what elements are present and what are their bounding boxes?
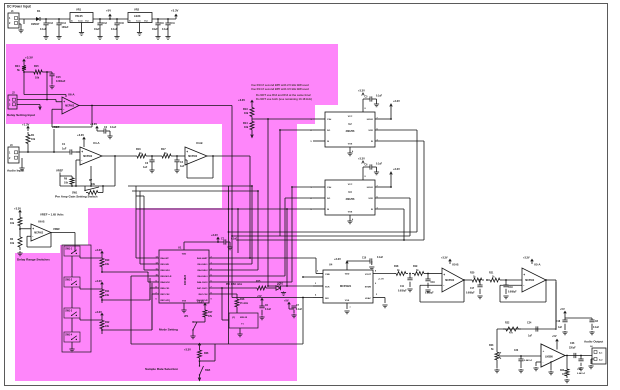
svg-text:VSS: VSS <box>345 300 350 302</box>
svg-text:U4-B: U4-B <box>196 141 203 145</box>
svg-text:CSB: CSB <box>325 274 330 276</box>
svg-text:1N5817: 1N5817 <box>31 23 40 26</box>
svg-text:10k: 10k <box>244 126 249 129</box>
svg-text:R15: R15 <box>34 65 39 68</box>
svg-text:0.1uF: 0.1uF <box>162 28 169 31</box>
svg-text:+: + <box>63 100 65 104</box>
svg-text:HOLD: HOLD <box>367 119 374 121</box>
svg-text:RA7-OSC1: RA7-OSC1 <box>197 287 208 290</box>
svg-text:+: + <box>443 273 445 277</box>
svg-text:-: - <box>63 107 64 111</box>
svg-text:RB1-SDI: RB1-SDI <box>161 264 170 266</box>
svg-text:+3.3V: +3.3V <box>211 233 218 237</box>
svg-text:C13: C13 <box>49 22 54 25</box>
svg-text:0.1uF: 0.1uF <box>377 257 384 259</box>
svg-text:MXL25: MXL25 <box>240 317 248 319</box>
svg-text:+3.3V: +3.3V <box>184 348 191 352</box>
svg-text:0.005uF: 0.005uF <box>398 291 407 293</box>
svg-text:R17: R17 <box>161 148 166 151</box>
svg-text:16F1823: 16F1823 <box>183 274 187 285</box>
svg-text:RA7-CS2: RA7-CS2 <box>199 293 209 296</box>
svg-text:C26: C26 <box>570 342 575 345</box>
svg-text:VREF = 1.65 Volts: VREF = 1.65 Volts <box>40 213 64 217</box>
svg-text:C12: C12 <box>103 22 108 25</box>
svg-text:U6-B: U6-B <box>38 220 45 224</box>
svg-text:C23: C23 <box>514 350 519 352</box>
svg-text:C18: C18 <box>556 321 561 323</box>
svg-text:MCP602: MCP602 <box>83 156 93 158</box>
svg-text:U4-A: U4-A <box>93 141 100 145</box>
svg-text:+5V: +5V <box>560 307 565 311</box>
svg-text:0.1uF: 0.1uF <box>110 126 117 129</box>
svg-text:LE33: LE33 <box>134 14 141 18</box>
svg-text:Out: Out <box>85 20 89 23</box>
svg-text:+: + <box>543 349 545 353</box>
svg-text:Delay Setting Input: Delay Setting Input <box>7 113 35 117</box>
svg-text:R10: R10 <box>105 259 110 262</box>
svg-text:VREF: VREF <box>52 125 60 129</box>
svg-text:R15: R15 <box>256 280 261 283</box>
svg-text:Sample Rate Selection: Sample Rate Selection <box>145 367 178 371</box>
svg-text:VSS: VSS <box>182 301 187 303</box>
svg-text:R22: R22 <box>505 322 510 325</box>
svg-text:+3.3V: +3.3V <box>77 133 84 137</box>
svg-text:10k: 10k <box>105 294 110 297</box>
svg-text:+: + <box>81 150 83 154</box>
svg-text:R18: R18 <box>394 265 399 268</box>
svg-text:0.1uF: 0.1uF <box>296 309 303 311</box>
svg-text:SW1-3: SW1-3 <box>65 310 73 312</box>
svg-text:1uF: 1uF <box>180 165 185 168</box>
svg-text:R24: R24 <box>15 65 20 68</box>
svg-text:SCK: SCK <box>368 198 373 200</box>
svg-text:-: - <box>443 283 444 287</box>
svg-text:+: + <box>186 150 188 154</box>
svg-text:LDAC: LDAC <box>365 297 371 300</box>
svg-text:+3.3V: +3.3V <box>90 122 97 126</box>
svg-text:10k: 10k <box>244 112 249 115</box>
svg-text:SW1-1: SW1-1 <box>65 248 73 250</box>
svg-text:RA0-UART: RA0-UART <box>197 257 208 260</box>
svg-text:+3.3V: +3.3V <box>441 257 448 260</box>
svg-text:C10: C10 <box>362 258 367 260</box>
svg-text:10uF: 10uF <box>94 28 100 31</box>
svg-text:DC Power Input: DC Power Input <box>7 5 32 9</box>
svg-text:-: - <box>523 283 524 287</box>
svg-text:+3.3V: +3.3V <box>523 257 530 260</box>
svg-text:+: + <box>523 273 525 277</box>
svg-text:VDD: VDD <box>182 254 187 256</box>
svg-text:U5-A: U5-A <box>534 263 541 267</box>
svg-text:R24: R24 <box>560 369 565 372</box>
svg-text:VSS: VSS <box>348 212 353 214</box>
svg-text:+3.3V: +3.3V <box>14 207 21 211</box>
svg-text:MCP602: MCP602 <box>188 156 198 158</box>
svg-text:-: - <box>543 360 544 364</box>
svg-text:SO: SO <box>327 198 330 200</box>
svg-text:C11: C11 <box>400 286 405 288</box>
svg-text:RA3-SEL3: RA3-SEL3 <box>197 275 208 278</box>
svg-text:MCP602: MCP602 <box>65 106 75 108</box>
svg-text:SCK: SCK <box>325 287 330 289</box>
svg-text:MCP602: MCP602 <box>525 280 535 282</box>
svg-text:R17: R17 <box>208 311 213 314</box>
svg-text:MCP4921: MCP4921 <box>340 285 352 288</box>
svg-text:+3.3V: +3.3V <box>95 279 102 283</box>
svg-text:+3.3V: +3.3V <box>95 248 102 252</box>
svg-text:LM386: LM386 <box>545 356 553 359</box>
svg-text:RA4-OSC2: RA4-OSC2 <box>197 281 208 284</box>
svg-text:RB7-GPQ: RB7-GPQ <box>161 300 171 302</box>
svg-text:15 ohm: 15 ohm <box>240 303 248 305</box>
svg-text:Do NOT use both (use remaining: Do NOT use both (use remaining 10-18 kHz… <box>256 97 312 101</box>
svg-text:C18: C18 <box>509 287 514 289</box>
svg-text:SW1-4: SW1-4 <box>65 333 73 336</box>
svg-text:0.1uF: 0.1uF <box>593 327 600 329</box>
svg-text:VCC: VCC <box>348 184 353 186</box>
svg-text:Out: Out <box>144 20 148 23</box>
svg-text:+3.3V: +3.3V <box>25 56 33 60</box>
svg-text:VR2: VR2 <box>134 8 140 12</box>
svg-text:R19: R19 <box>413 265 418 268</box>
svg-text:23K256: 23K256 <box>346 130 355 133</box>
svg-text:C17: C17 <box>470 288 475 290</box>
svg-text:SO: SO <box>327 130 330 132</box>
svg-text:RA2-SEL2: RA2-SEL2 <box>197 269 208 272</box>
svg-text:0.1uF: 0.1uF <box>111 28 118 31</box>
svg-text:0.047uF: 0.047uF <box>577 372 586 375</box>
svg-text:+5V: +5V <box>552 335 557 338</box>
svg-text:+3.3V: +3.3V <box>197 300 204 304</box>
svg-text:SCK: SCK <box>368 130 373 132</box>
svg-text:VREF: VREF <box>53 227 60 231</box>
svg-text:RB5-CS1: RB5-CS1 <box>161 288 171 290</box>
svg-text:1uF: 1uF <box>558 327 563 329</box>
svg-text:C10: C10 <box>120 22 125 25</box>
svg-text:U6-A: U6-A <box>68 93 75 97</box>
svg-text:R16: R16 <box>136 148 141 151</box>
svg-text:0.1uF: 0.1uF <box>376 164 383 166</box>
svg-text:0.1uF: 0.1uF <box>40 28 47 31</box>
svg-text:Pre Amp Gain Setting Switch: Pre Amp Gain Setting Switch <box>55 195 98 199</box>
svg-text:VR1: VR1 <box>76 8 82 12</box>
svg-text:10uF: 10uF <box>152 28 158 31</box>
svg-text:0.068uF: 0.068uF <box>508 292 517 294</box>
svg-text:VSS: VSS <box>348 144 353 146</box>
svg-text:0.1uF: 0.1uF <box>265 309 272 311</box>
svg-text:R21: R21 <box>489 272 494 275</box>
svg-text:+3.3V: +3.3V <box>334 257 341 261</box>
svg-text:RB7-CS2: RB7-CS2 <box>161 294 171 296</box>
svg-text:VREF: VREF <box>56 169 64 173</box>
svg-text:78L05: 78L05 <box>75 14 83 18</box>
svg-text:-: - <box>81 158 82 162</box>
svg-text:MCP602: MCP602 <box>34 233 44 235</box>
svg-text:C24: C24 <box>527 322 532 325</box>
svg-text:R23: R23 <box>489 344 494 347</box>
svg-text:23K256: 23K256 <box>346 198 355 201</box>
svg-text:+5V: +5V <box>106 9 111 13</box>
svg-text:+3.3V: +3.3V <box>393 99 400 103</box>
svg-text:R12: R12 <box>105 321 110 324</box>
svg-text:R11: R11 <box>105 290 110 293</box>
svg-text:Delay Range Switches: Delay Range Switches <box>17 258 50 262</box>
svg-text:MCP602: MCP602 <box>445 280 455 282</box>
svg-text:SW5: SW5 <box>205 369 211 372</box>
svg-text:R14: R14 <box>243 122 248 125</box>
svg-text:VDD: VDD <box>345 274 350 276</box>
svg-text:1uF: 1uF <box>528 336 533 338</box>
svg-text:+1.3V: +1.3V <box>22 123 30 127</box>
svg-text:10k: 10k <box>10 242 15 245</box>
svg-text:0.001uF: 0.001uF <box>56 80 66 83</box>
svg-text:SW1-2: SW1-2 <box>65 279 73 281</box>
svg-text:C14: C14 <box>62 22 67 25</box>
svg-text:RB3-MCLR: RB3-MCLR <box>161 276 172 278</box>
svg-text:VOUT: VOUT <box>365 274 372 276</box>
svg-text:10k: 10k <box>105 325 110 328</box>
svg-text:-: - <box>32 234 33 238</box>
svg-text:Use R14 if second BPF with 3.5: Use R14 if second BPF with 3.5 kHz BW us… <box>251 87 309 91</box>
svg-text:Com: Com <box>136 21 141 23</box>
svg-text:C16: C16 <box>431 282 436 284</box>
svg-text:100uF: 100uF <box>62 26 69 29</box>
svg-text:Use R13 if second BPF with 2.5: Use R13 if second BPF with 2.5 kHz BW us… <box>251 83 309 87</box>
svg-text:C15: C15 <box>56 76 61 79</box>
svg-text:0.068uF: 0.068uF <box>425 293 434 295</box>
svg-text:+3.3V: +3.3V <box>358 89 365 93</box>
svg-text:U1: U1 <box>178 246 182 250</box>
svg-text:+3.3V: +3.3V <box>171 9 179 13</box>
svg-text:R26: R26 <box>204 352 209 355</box>
svg-text:Audio Output: Audio Output <box>584 340 603 344</box>
svg-text:RA0-INT: RA0-INT <box>161 257 170 260</box>
svg-text:220uF: 220uF <box>569 348 576 350</box>
svg-text:SHDN: SHDN <box>365 287 372 289</box>
svg-text:RB4-SCK: RB4-SCK <box>161 281 171 284</box>
svg-text:Mode Setting: Mode Setting <box>159 328 178 332</box>
svg-text:VCC: VCC <box>348 116 353 118</box>
svg-text:47k: 47k <box>208 315 213 318</box>
svg-text:0.047uF: 0.047uF <box>524 359 533 362</box>
svg-text:+1.3V: +1.3V <box>378 279 384 281</box>
svg-text:10k: 10k <box>105 263 110 266</box>
svg-text:C11: C11 <box>171 22 176 25</box>
svg-text:+3.3V: +3.3V <box>95 310 102 314</box>
svg-text:RA1-SEL1: RA1-SEL1 <box>197 263 208 266</box>
svg-text:10k: 10k <box>35 77 40 80</box>
svg-text:+: + <box>32 227 34 231</box>
svg-text:1uF: 1uF <box>62 148 67 151</box>
svg-text:HOLD: HOLD <box>367 187 374 189</box>
svg-text:R16: R16 <box>240 298 245 301</box>
svg-text:Com: Com <box>78 21 83 23</box>
svg-text:D1: D1 <box>37 9 41 13</box>
svg-text:Do NOT use R13 and R14 at the: Do NOT use R13 and R14 at the same time! <box>256 93 311 97</box>
svg-text:JP1: JP1 <box>184 315 189 318</box>
svg-text:U4: U4 <box>329 263 333 267</box>
svg-text:1uF: 1uF <box>143 166 148 169</box>
svg-text:+5V: +5V <box>284 299 289 302</box>
svg-text:SDI: SDI <box>325 298 329 300</box>
svg-text:+3.3V: +3.3V <box>393 167 400 171</box>
svg-text:0.1uF: 0.1uF <box>376 96 383 98</box>
svg-text:+3.3V: +3.3V <box>358 157 365 161</box>
svg-text:+3.3V: +3.3V <box>238 98 245 102</box>
svg-text:10k: 10k <box>31 138 36 141</box>
svg-text:10k: 10k <box>10 222 15 225</box>
svg-text:10k: 10k <box>91 183 96 186</box>
svg-text:10k: 10k <box>64 182 69 185</box>
svg-text:0.068uF: 0.068uF <box>466 293 475 295</box>
svg-text:R13: R13 <box>243 108 248 111</box>
svg-text:RB2-SDO: RB2-SDO <box>161 270 171 272</box>
svg-text:(C): (C) <box>232 317 235 319</box>
svg-text:R20: R20 <box>470 272 475 275</box>
svg-text:U5-B: U5-B <box>452 263 459 267</box>
